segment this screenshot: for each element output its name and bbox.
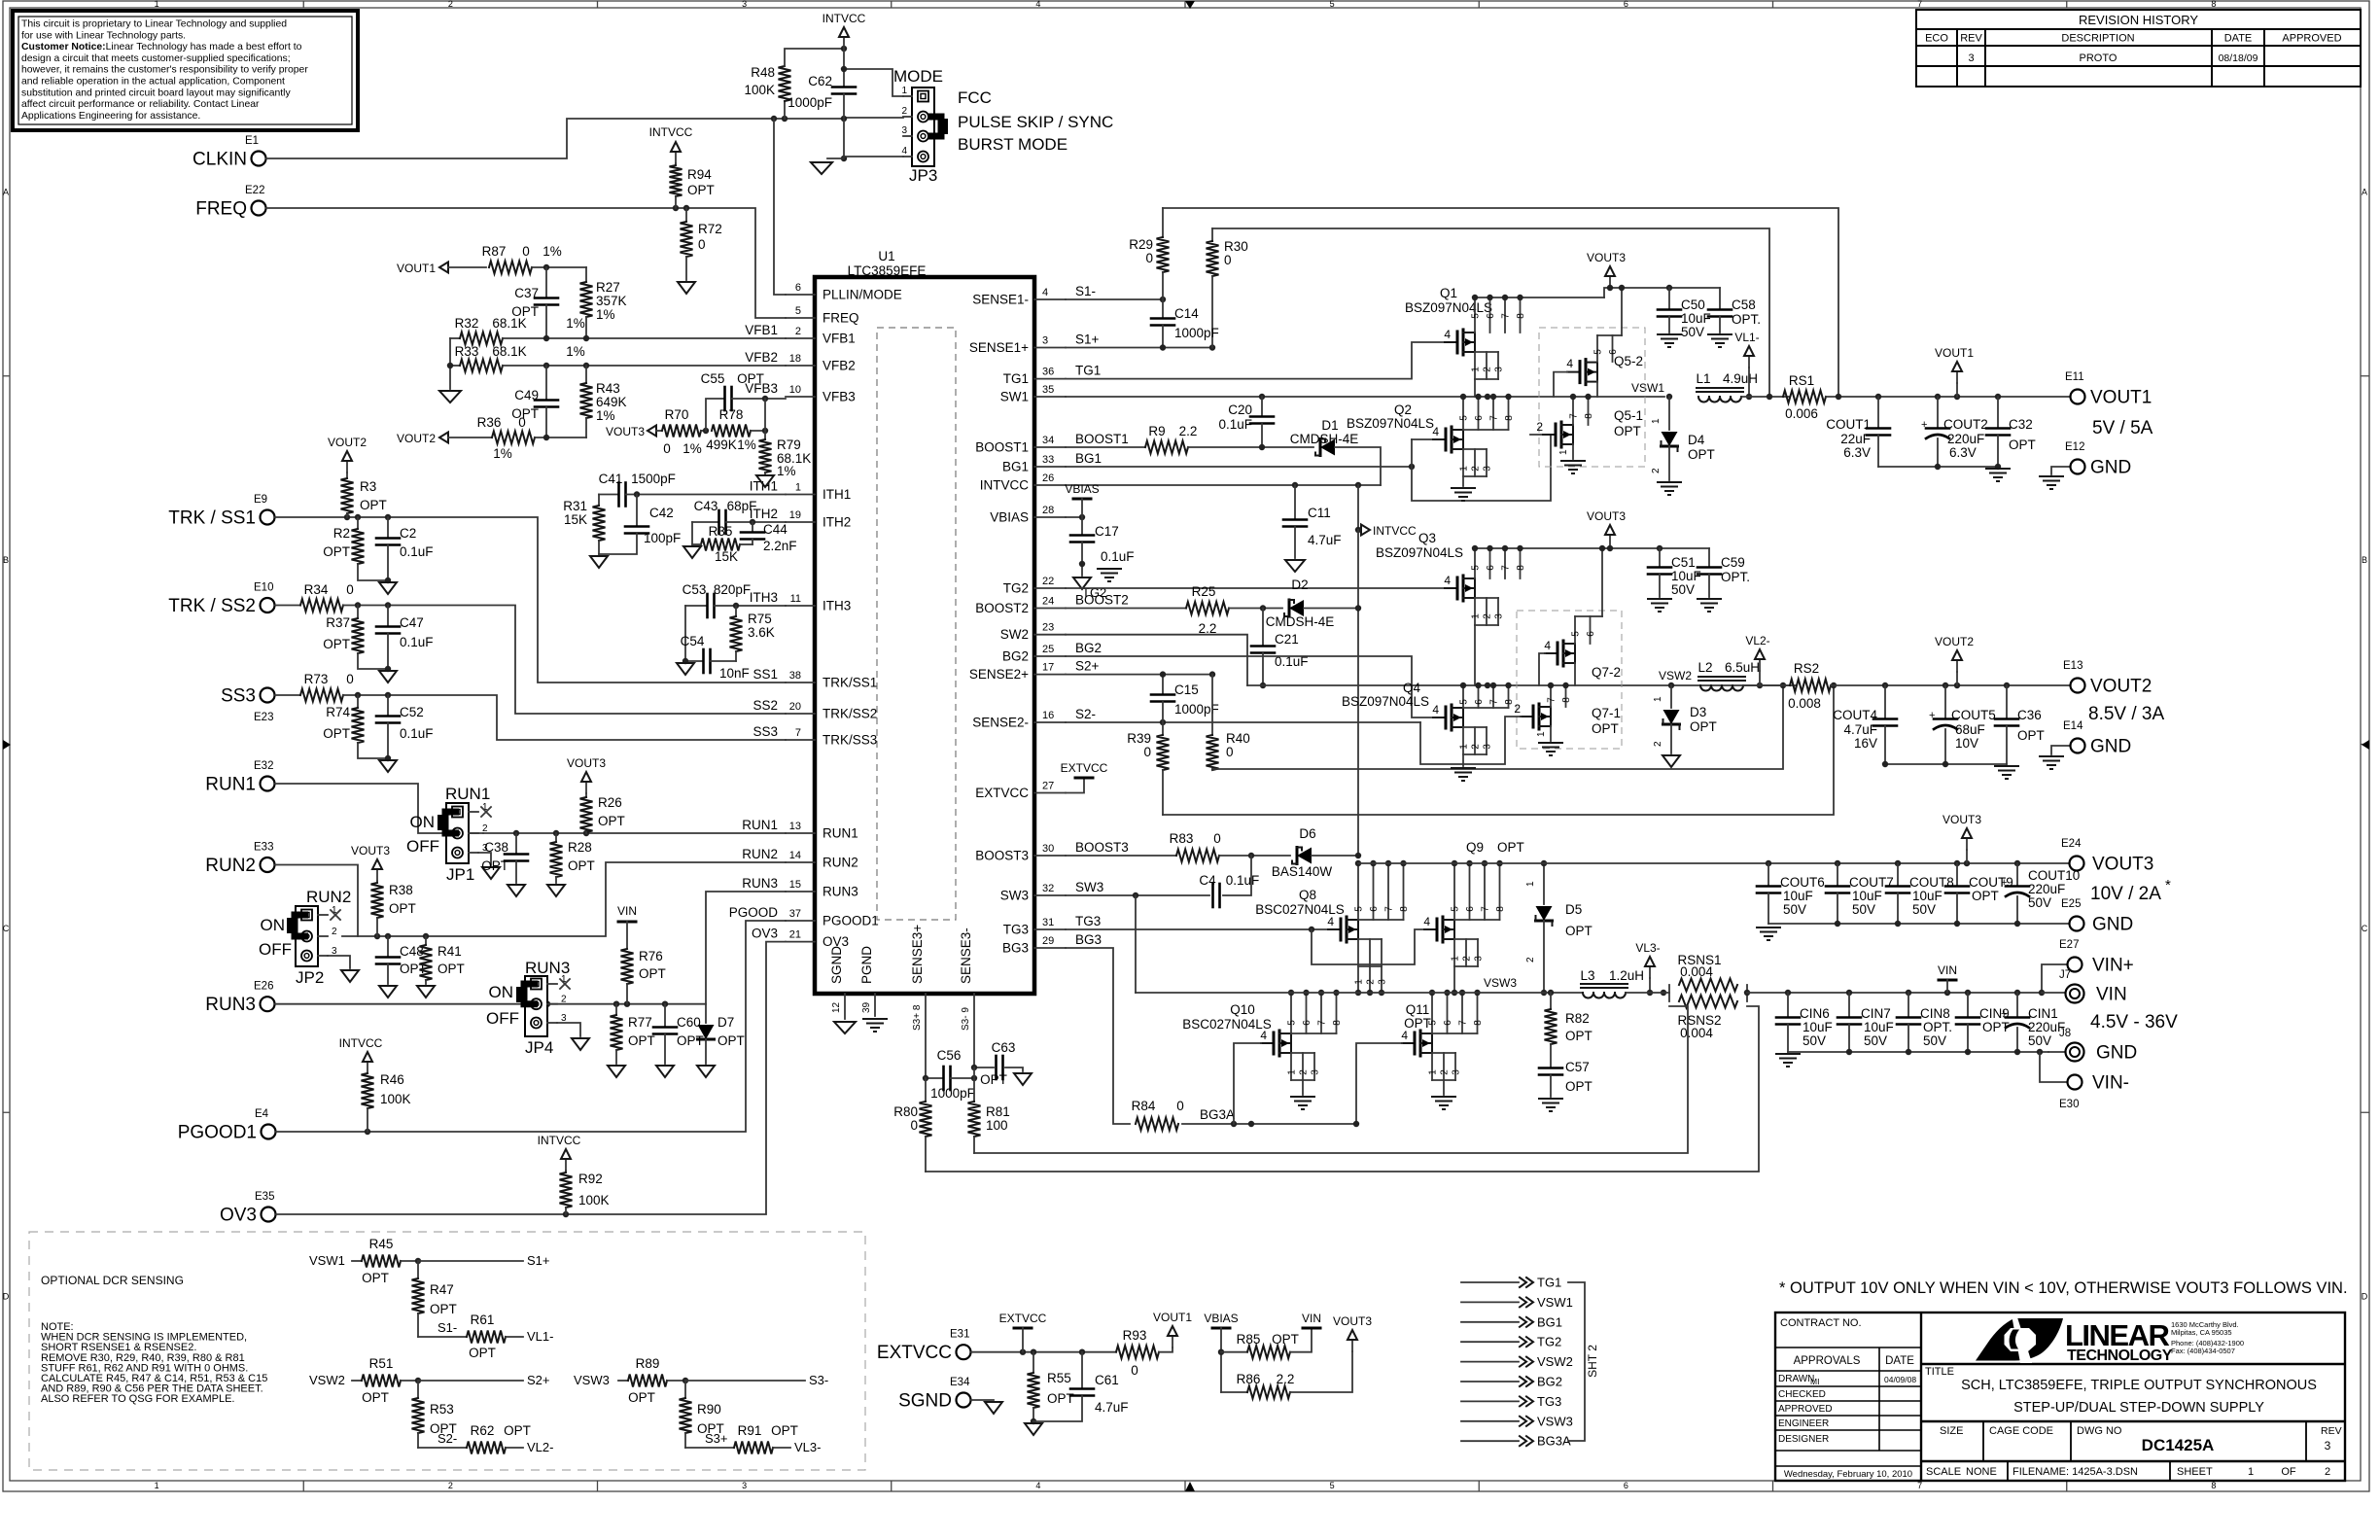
capacitor CIN9	[1967, 993, 1969, 1017]
svg-text:15K: 15K	[564, 512, 587, 527]
svg-text:5: 5	[1330, 1481, 1335, 1490]
svg-text:JP1: JP1	[446, 865, 474, 884]
power VOUT3 arrow at R86	[1351, 1340, 1353, 1351]
svg-text:TRK / SS2: TRK / SS2	[168, 596, 256, 616]
svg-text:5: 5	[1354, 906, 1365, 912]
svg-text:JP3: JP3	[909, 166, 937, 185]
wire INTVCC to bootstrap diodes	[1357, 530, 1359, 856]
terminal E34 SGND	[957, 1393, 971, 1408]
svg-text:3: 3	[1483, 744, 1493, 750]
svg-text:VOUT3: VOUT3	[1333, 1314, 1372, 1328]
svg-text:OPTIONAL DCR SENSING: OPTIONAL DCR SENSING	[41, 1274, 184, 1287]
capacitor C47	[387, 606, 389, 627]
terminal E9 TRK/SS1	[261, 510, 275, 525]
ground	[2040, 475, 2063, 477]
jack J7 VIN	[2042, 992, 2065, 994]
wire PLLIN/MODE from CLKIN bus	[774, 119, 786, 295]
svg-text:VOUT1: VOUT1	[397, 262, 436, 275]
inductor L3	[1583, 993, 1626, 998]
svg-text:1%: 1%	[737, 437, 756, 452]
svg-text:R33: R33	[455, 344, 479, 359]
terminal E32 RUN1	[261, 777, 275, 791]
svg-text:S2+: S2+	[527, 1373, 550, 1387]
capacitor C53	[685, 605, 707, 607]
svg-text:04/09/08: 04/09/08	[1884, 1375, 1916, 1384]
svg-text:2: 2	[1651, 468, 1662, 473]
svg-text:8: 8	[1399, 906, 1410, 912]
capacitor C62	[843, 49, 845, 87]
resistor R82	[1550, 993, 1552, 1009]
capacitor C50	[1668, 288, 1670, 309]
U1 pin 2 VFB1	[786, 337, 815, 339]
svg-text:JP2: JP2	[296, 968, 324, 987]
svg-text:OPT: OPT	[323, 544, 350, 559]
wire COUT4 ground rail	[1885, 763, 2007, 765]
svg-text:Applications Engineering for a: Applications Engineering for assistance.	[21, 111, 200, 122]
svg-text:50V: 50V	[1671, 582, 1695, 597]
svg-text:R39: R39	[1127, 731, 1151, 746]
Q10 pin rails	[1290, 993, 1292, 1033]
svg-text:2: 2	[1653, 741, 1663, 747]
svg-text:INTVCC: INTVCC	[649, 125, 693, 139]
svg-text:R36: R36	[477, 415, 502, 430]
U1 pin 35 SW1	[1034, 396, 1066, 398]
diode D6 BAS140W	[1297, 848, 1312, 864]
svg-text:S1-: S1-	[1075, 284, 1096, 298]
svg-text:R2: R2	[333, 526, 350, 541]
svg-text:1%: 1%	[596, 408, 615, 423]
svg-text:1%: 1%	[493, 446, 512, 461]
wire VSW3 bus	[1136, 992, 1583, 994]
svg-text:R87: R87	[482, 244, 507, 259]
svg-text:VIN: VIN	[617, 904, 637, 918]
terminal E4 PGOOD1	[262, 1125, 276, 1139]
svg-text:22uF: 22uF	[1840, 432, 1871, 446]
resistor R47	[417, 1261, 419, 1278]
resistor RS1	[1783, 391, 1826, 403]
svg-text:4.7uF: 4.7uF	[1843, 722, 1877, 737]
svg-text:BG1: BG1	[1002, 460, 1029, 474]
svg-text:C49: C49	[514, 388, 539, 402]
svg-text:RUN2: RUN2	[205, 856, 256, 876]
svg-text:6: 6	[1443, 1020, 1453, 1026]
svg-text:4: 4	[1544, 639, 1551, 652]
svg-text:DATE: DATE	[2224, 33, 2253, 45]
svg-text:4: 4	[1327, 915, 1334, 928]
node BG1 to sheet 2	[1461, 1321, 1519, 1323]
capacitor C36	[2006, 685, 2008, 718]
svg-text:7: 7	[1489, 415, 1500, 421]
svg-text:33: 33	[1042, 454, 1054, 466]
capacitor CIN7	[1848, 993, 1850, 1017]
svg-text:18: 18	[789, 353, 801, 365]
svg-text:10uF: 10uF	[1802, 1020, 1833, 1034]
svg-text:3: 3	[1494, 613, 1505, 619]
svg-text:5: 5	[1459, 415, 1470, 421]
svg-text:Q2: Q2	[1394, 402, 1412, 417]
node VSW2 to sheet 2	[1461, 1361, 1519, 1363]
svg-text:4.5V - 36V: 4.5V - 36V	[2090, 1012, 2178, 1032]
power VBIAS bar	[1212, 1327, 1230, 1330]
svg-text:R77: R77	[628, 1015, 652, 1030]
svg-text:OPT: OPT	[2009, 437, 2036, 452]
svg-text:ENGINEER: ENGINEER	[1778, 1418, 1829, 1429]
U1 pin 18 VFB2	[786, 365, 815, 367]
svg-text:TG3: TG3	[1003, 923, 1029, 937]
capacitor C59	[1708, 548, 1710, 567]
wire VFB3 node	[764, 399, 766, 431]
svg-text:R3: R3	[360, 479, 376, 494]
diode D3	[1670, 685, 1672, 708]
wire BG1 net	[1066, 466, 1412, 468]
svg-text:VIN-: VIN-	[2092, 1073, 2129, 1094]
svg-text:OPT: OPT	[389, 901, 416, 916]
capacitor COUT7	[1837, 863, 1838, 886]
svg-text:OPT: OPT	[430, 1302, 457, 1316]
svg-text:10uF: 10uF	[1912, 889, 1942, 903]
svg-text:13: 13	[789, 821, 801, 832]
resistor R40	[1211, 675, 1213, 735]
svg-text:C47: C47	[400, 615, 424, 630]
svg-text:GND: GND	[2090, 458, 2131, 478]
svg-text:6: 6	[1465, 906, 1476, 912]
svg-text:EXTVCC: EXTVCC	[999, 1312, 1047, 1325]
svg-text:E22: E22	[245, 185, 264, 196]
svg-text:100K: 100K	[578, 1193, 610, 1207]
resistor RSNS1	[1626, 992, 1669, 994]
svg-text:0: 0	[1145, 251, 1153, 265]
svg-text:50V: 50V	[1912, 902, 1936, 917]
resistor R29	[1162, 208, 1164, 237]
resistor R43	[585, 366, 587, 383]
wire SENSE2+ net	[1066, 674, 1212, 676]
ground	[863, 1018, 887, 1020]
svg-text:affect circuit performance or: affect circuit performance or reliabilit…	[21, 99, 260, 110]
svg-text:R25: R25	[1192, 584, 1216, 599]
svg-text:17: 17	[1042, 662, 1054, 674]
power INTVCC	[843, 37, 845, 49]
svg-text:OPT: OPT	[628, 1390, 655, 1405]
Q5-2 pin rails	[1596, 335, 1598, 362]
svg-text:6: 6	[1624, 0, 1628, 9]
svg-text:PGOOD1: PGOOD1	[178, 1123, 257, 1143]
svg-text:1: 1	[1525, 881, 1536, 887]
svg-text:VFB2: VFB2	[745, 350, 778, 365]
terminal E26 RUN3	[261, 997, 275, 1011]
svg-text:RUN1: RUN1	[205, 775, 256, 795]
wire FREQ net	[266, 208, 787, 318]
svg-text:23: 23	[1042, 622, 1054, 634]
Q2 pin rails	[1462, 397, 1464, 430]
svg-text:BOOST3: BOOST3	[975, 849, 1029, 863]
svg-text:R74: R74	[326, 705, 350, 719]
svg-text:E26: E26	[254, 981, 273, 993]
svg-text:C38: C38	[484, 840, 508, 855]
svg-text:1: 1	[155, 0, 159, 9]
svg-text:TRK/SS3: TRK/SS3	[822, 733, 877, 748]
svg-text:0.004: 0.004	[1680, 1026, 1713, 1040]
U1 pin 30 BOOST3	[1034, 855, 1066, 857]
ground	[1452, 767, 1475, 769]
capacitor C63	[974, 1067, 994, 1068]
svg-text:OPT: OPT	[1047, 1391, 1074, 1406]
svg-text:22: 22	[1042, 576, 1054, 587]
svg-text:Q7-2: Q7-2	[1592, 665, 1621, 680]
svg-text:1%: 1%	[542, 244, 562, 259]
capacitor COUT1	[1877, 397, 1879, 428]
svg-text:0: 0	[346, 672, 354, 686]
svg-text:E31: E31	[950, 1329, 969, 1341]
svg-text:4: 4	[1566, 357, 1573, 370]
svg-text:OPT: OPT	[639, 966, 666, 981]
capacitor COUT6	[1767, 863, 1769, 886]
svg-text:FCC: FCC	[958, 88, 992, 107]
capacitor CIN1	[2016, 993, 2018, 1017]
svg-text:C56: C56	[937, 1048, 962, 1063]
ground	[656, 1066, 674, 1077]
svg-text:1: 1	[1459, 466, 1470, 472]
node EXTVCC tag	[1066, 778, 1084, 793]
svg-text:BSZ097N04LS: BSZ097N04LS	[1347, 416, 1434, 431]
svg-text:8: 8	[1495, 906, 1506, 912]
svg-text:10uF: 10uF	[1681, 311, 1711, 326]
svg-text:OF: OF	[2281, 1466, 2296, 1478]
svg-text:1: 1	[1428, 1069, 1439, 1075]
svg-text:R45: R45	[369, 1237, 394, 1251]
resistor R75	[735, 606, 737, 616]
Linear Technology logo	[1976, 1317, 2063, 1363]
svg-text:ON: ON	[410, 813, 436, 831]
svg-text:2: 2	[901, 106, 907, 117]
svg-text:OPT: OPT	[504, 1423, 531, 1438]
Q11 pin rails	[1431, 993, 1433, 1033]
svg-text:RUN1: RUN1	[822, 826, 858, 841]
svg-text:OPT: OPT	[1565, 1079, 1592, 1094]
ground	[341, 970, 359, 982]
svg-text:2: 2	[448, 0, 453, 9]
svg-text:4: 4	[901, 146, 907, 157]
svg-text:4: 4	[1432, 703, 1439, 717]
ground	[1291, 1096, 1314, 1098]
resistor R90	[684, 1381, 686, 1398]
svg-text:C50: C50	[1681, 297, 1705, 312]
svg-text:VSW1: VSW1	[1631, 381, 1664, 395]
svg-text:C17: C17	[1095, 524, 1119, 539]
svg-text:4: 4	[1423, 915, 1430, 928]
svg-text:E11: E11	[2065, 371, 2084, 383]
svg-text:NONE: NONE	[1966, 1466, 1997, 1478]
svg-text:VL3-: VL3-	[794, 1440, 821, 1454]
svg-text:Q5-2: Q5-2	[1614, 354, 1643, 368]
svg-text:7: 7	[1917, 0, 1922, 9]
svg-text:CONTRACT NO.: CONTRACT NO.	[1780, 1317, 1862, 1329]
Q3 pin rails	[1474, 548, 1476, 578]
svg-text:3.6K: 3.6K	[748, 625, 775, 640]
svg-text:10uF: 10uF	[1864, 1020, 1894, 1034]
svg-text:RUN2: RUN2	[742, 847, 778, 861]
ground	[507, 885, 525, 896]
svg-text:ECO: ECO	[1925, 33, 1948, 45]
op-amp U1 LTC3859EFE	[815, 277, 1034, 994]
svg-text:S2-: S2-	[437, 1431, 457, 1446]
svg-text:0: 0	[910, 1118, 918, 1133]
svg-text:4.7uF: 4.7uF	[1308, 533, 1342, 547]
svg-text:OPT: OPT	[481, 858, 508, 873]
svg-text:R90: R90	[697, 1402, 721, 1417]
svg-text:10nF: 10nF	[719, 666, 750, 681]
svg-text:VOUT1: VOUT1	[1935, 346, 1974, 360]
svg-text:BG1: BG1	[1537, 1314, 1562, 1329]
svg-text:6: 6	[1608, 349, 1619, 355]
terminal E33 RUN2	[261, 857, 275, 872]
svg-text:C37: C37	[514, 286, 539, 300]
U1 pin 38 TRK/SS1	[786, 682, 815, 683]
svg-text:OFF: OFF	[486, 1009, 519, 1028]
svg-text:6.3V: 6.3V	[1949, 445, 1977, 460]
resistor R36	[448, 437, 492, 438]
svg-text:4: 4	[1035, 1481, 1040, 1490]
svg-text:1: 1	[1459, 744, 1470, 750]
svg-text:0.008: 0.008	[1788, 696, 1821, 711]
resistor R79	[764, 431, 766, 439]
wire INTVCC net	[1066, 484, 1381, 486]
U1 pin 22 TG2	[1034, 587, 1066, 589]
svg-text:ITH1: ITH1	[822, 487, 851, 502]
svg-text:FILENAME: 1425A-3.DSN: FILENAME: 1425A-3.DSN	[2012, 1466, 2138, 1478]
svg-text:10uF: 10uF	[1852, 889, 1882, 903]
svg-text:VL2-: VL2-	[527, 1440, 553, 1454]
svg-text:D5: D5	[1565, 902, 1582, 917]
svg-text:BSC027N04LS: BSC027N04LS	[1182, 1017, 1272, 1032]
svg-text:E13: E13	[2063, 660, 2082, 672]
svg-text:VSW1: VSW1	[1537, 1295, 1573, 1310]
wire VBIAS net	[1066, 516, 1082, 518]
svg-text:7: 7	[1458, 1020, 1469, 1026]
svg-text:ON: ON	[489, 983, 514, 1001]
svg-text:R32: R32	[455, 316, 479, 331]
capacitor CIN6	[1787, 993, 1789, 1017]
optional DCR sensing dashed box	[29, 1232, 865, 1470]
diode D7	[705, 1004, 707, 1023]
svg-text:E10: E10	[254, 582, 273, 594]
svg-text:BOOST2: BOOST2	[975, 601, 1029, 615]
wire S2- line	[418, 1447, 467, 1449]
svg-text:R47: R47	[430, 1282, 454, 1297]
svg-text:VBIAS: VBIAS	[1065, 482, 1099, 496]
svg-text:R76: R76	[639, 949, 663, 963]
wire Q7-1 gate	[1420, 717, 1521, 764]
capacitor C14	[1162, 299, 1164, 318]
svg-text:S3- 9: S3- 9	[961, 1007, 971, 1031]
svg-text:26: 26	[1042, 472, 1054, 484]
svg-text:BSZ097N04LS: BSZ097N04LS	[1376, 545, 1463, 560]
svg-text:for use with Linear Technology: for use with Linear Technology parts.	[21, 30, 186, 41]
svg-text:VOUT3: VOUT3	[567, 756, 606, 770]
svg-text:REV: REV	[1960, 33, 1982, 45]
svg-text:S1+: S1+	[527, 1253, 550, 1268]
svg-text:8: 8	[2211, 1481, 2216, 1490]
ground	[677, 663, 694, 675]
svg-text:E27: E27	[2059, 939, 2079, 951]
svg-text:CIN1: CIN1	[2028, 1006, 2058, 1021]
svg-text:3: 3	[1311, 1069, 1321, 1075]
wire SENSE1- net	[1066, 298, 1163, 300]
svg-text:S1+: S1+	[1075, 332, 1100, 347]
svg-text:0: 0	[1143, 745, 1151, 759]
svg-text:JP4: JP4	[525, 1038, 553, 1057]
svg-text:1: 1	[1653, 696, 1663, 702]
svg-text:VOUT1: VOUT1	[2090, 388, 2152, 408]
svg-text:2: 2	[448, 1481, 453, 1490]
svg-text:3: 3	[901, 125, 907, 136]
svg-text:3: 3	[2325, 1439, 2331, 1452]
svg-text:1: 1	[2248, 1466, 2254, 1478]
power VIN bar at R85	[1303, 1327, 1320, 1330]
power VL2-	[1759, 659, 1761, 671]
svg-text:+: +	[1921, 419, 1927, 431]
svg-text:Q4: Q4	[1403, 681, 1421, 695]
svg-text:R75: R75	[748, 612, 772, 626]
wire OV3 net	[276, 942, 786, 1214]
svg-text:BG2: BG2	[1002, 649, 1029, 664]
svg-text:S3+ 8: S3+ 8	[912, 1004, 923, 1031]
svg-text:2.2: 2.2	[1179, 424, 1198, 438]
svg-text:50V: 50V	[1864, 1033, 1887, 1048]
svg-text:4: 4	[1444, 328, 1451, 341]
Q7-2 pin rails	[1574, 616, 1576, 644]
svg-text:6: 6	[1369, 906, 1380, 912]
svg-text:BG1: BG1	[1075, 451, 1102, 466]
terminal E10 TRK/SS2	[261, 598, 275, 612]
svg-text:Q10: Q10	[1230, 1002, 1255, 1017]
svg-text:VOUT2: VOUT2	[2090, 677, 2152, 697]
svg-text:0.1uF: 0.1uF	[400, 544, 434, 559]
wire BOOST3 net	[1066, 855, 1176, 857]
svg-text:50V: 50V	[1681, 325, 1704, 339]
svg-text:1%: 1%	[682, 441, 702, 456]
svg-text:R48: R48	[751, 65, 775, 80]
svg-text:ALSO REFER TO QSG FOR EXAMPLE.: ALSO REFER TO QSG FOR EXAMPLE.	[41, 1393, 234, 1405]
svg-text:C: C	[3, 924, 10, 933]
capacitor C42	[636, 495, 638, 527]
U1 pin 31 TG3	[1034, 928, 1066, 930]
svg-text:C63: C63	[992, 1040, 1016, 1055]
resistor R72	[685, 208, 687, 222]
wire RUN3 net	[275, 892, 786, 1004]
terminal E30 VIN-	[2040, 1052, 2067, 1082]
Q7-1 pin rails	[1550, 685, 1552, 707]
svg-text:RUN1: RUN1	[742, 818, 778, 832]
svg-text:16: 16	[1042, 710, 1054, 721]
transistor Q7-2	[1545, 652, 1557, 654]
svg-text:RUN3: RUN3	[205, 995, 256, 1015]
ground	[1073, 577, 1091, 589]
svg-text:substitution and printed circu: substitution and printed circuit board l…	[21, 87, 291, 98]
capacitor C20	[1261, 397, 1263, 416]
svg-text:VSW2: VSW2	[309, 1373, 345, 1387]
svg-text:6: 6	[1474, 699, 1485, 705]
svg-text:Q9: Q9	[1466, 840, 1484, 855]
svg-text:R41: R41	[437, 944, 462, 959]
wire sense1 kelvin bus A	[1163, 208, 1838, 397]
svg-text:C36: C36	[2017, 708, 2042, 722]
U1 pin 14 RUN2	[786, 861, 815, 863]
wire JP1 pin3 to ground	[478, 853, 491, 865]
svg-text:VOUT3: VOUT3	[2092, 855, 2153, 875]
capacitor C43	[692, 521, 718, 523]
svg-text:GND: GND	[2090, 737, 2131, 757]
svg-text:6: 6	[1302, 1020, 1312, 1026]
